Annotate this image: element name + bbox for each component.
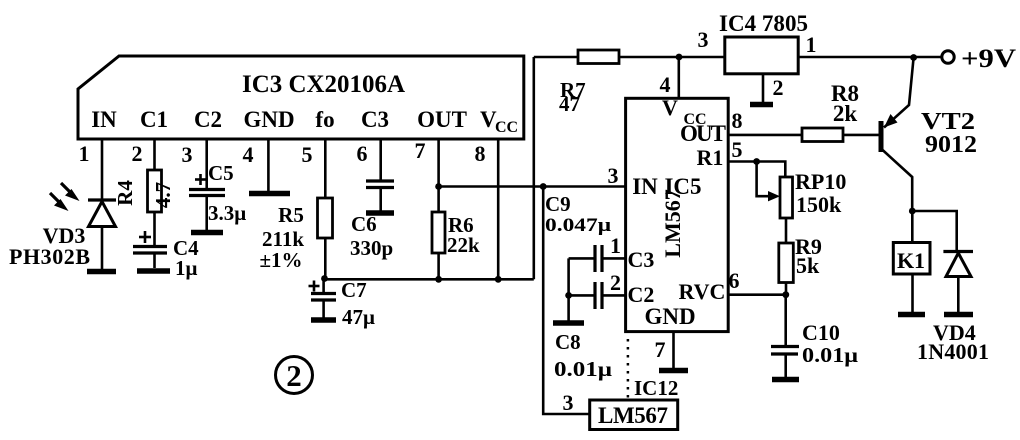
wire R6 to VCC rail [437,253,440,279]
label 330p [350,236,393,260]
label 2k [833,101,858,126]
svg-text:150k: 150k [796,192,842,217]
resistor R9 [779,243,794,283]
IC5 label R1 [697,145,724,170]
IC5 label LM567 (rotated) [660,189,685,257]
svg-text:LM567: LM567 [598,403,668,428]
capacitor on IC5 pin2 [569,282,626,309]
diode VD4 [943,252,973,313]
wire R8 to VT2 base [843,134,880,137]
svg-text:OUT: OUT [680,121,726,146]
terminal +9V circle [942,51,954,63]
svg-text:±1%: ±1% [259,248,302,272]
IC4 pin number 3 [698,27,709,52]
svg-text:OUT: OUT [417,107,467,132]
capacitor on IC5 pin1 [569,245,626,272]
ground bar C5 [191,230,223,236]
IC5 pin number 6 [729,268,740,293]
svg-text:IN: IN [632,174,658,199]
label 150k [796,192,842,217]
IC5 pin number 5 [732,137,743,162]
svg-text:8: 8 [732,108,743,133]
ground bar IC4 [750,102,773,108]
wire caps common to ground [567,258,570,320]
svg-text:9012: 9012 [925,132,977,158]
label R4 (rotated) [113,180,137,206]
label RP10 [795,169,846,194]
label C4 [173,236,199,260]
tone decoder IC5 box [626,98,729,331]
IC5 label IC5 [664,174,701,199]
svg-text:4: 4 [660,72,671,97]
wire pin7 to R6 [437,139,440,212]
IC3 pin number 4 [243,142,254,167]
svg-text:R4: R4 [113,180,137,206]
wire IC5 pin6 RVC [728,293,786,296]
IC5 pin number 3 [608,163,619,188]
svg-text:7: 7 [415,138,426,163]
IC5 label C3 [628,247,655,272]
svg-text:47μ: 47μ [342,305,375,329]
photodiode VD3 symbol [88,200,116,269]
svg-text:4.7: 4.7 [151,182,175,208]
label K1 [897,248,925,273]
svg-text:1: 1 [79,141,90,166]
label C8 [555,330,581,354]
IC3 pin label IN [91,107,117,132]
ground bar C4 [137,268,170,274]
svg-text:CC: CC [495,119,518,136]
svg-text:IC4 7805: IC4 7805 [719,11,808,36]
label VD4 [933,320,976,345]
IC3 pin label C2 [194,107,222,132]
ground bar C7 [311,317,336,323]
IC3 pin number 7 [415,138,426,163]
node dot caps join [565,292,572,299]
wire collector node to VD4 [912,211,956,251]
IC3 pin label GND [243,107,294,132]
svg-text:1N4001: 1N4001 [917,339,989,364]
IC3 title label [242,71,405,98]
label 9012 [925,132,977,158]
transistor VT2 base bar [879,121,884,152]
label plusminus 1% [259,248,302,272]
wire collector node to K1 [911,211,914,243]
capacitor C4 polarity plus [139,231,151,243]
capacitor C5 [189,190,225,231]
resistor R4 [148,170,162,212]
node dot R6 bottom [435,276,442,283]
svg-text:RVC: RVC [679,279,726,304]
ground bar IC5 pin7 [659,368,688,374]
IC5 label IN [632,174,658,199]
potentiometer RP10 [780,177,793,218]
wire pin4 GND [267,139,270,191]
wire VCC riser [532,57,535,279]
svg-text:0.047μ: 0.047μ [545,215,611,236]
node dot RVC [782,291,789,298]
svg-text:4: 4 [243,142,254,167]
IC3 pin label fo [315,107,334,132]
label 3.3u [208,201,246,225]
wire VCC bottom rail [325,278,534,281]
transistor VT2 collector [882,149,913,211]
svg-text:2: 2 [132,141,143,166]
svg-text:C3: C3 [628,247,655,272]
svg-text:6: 6 [729,268,740,293]
label 22k [447,233,480,257]
svg-text:3.3μ: 3.3μ [208,201,246,225]
dotted link line [627,339,630,398]
label 4.7 (rotated) [151,182,175,208]
IC5 label VCC [662,95,707,128]
node dot IC5 vcc tap [676,54,683,61]
svg-text:0.01μ: 0.01μ [554,357,612,381]
IC3 pin label C1 [140,107,168,132]
IC5 label C2 [628,282,655,307]
svg-text:fo: fo [315,107,334,132]
svg-text:5: 5 [732,137,743,162]
svg-text:0.01μ: 0.01μ [802,343,858,367]
svg-text:8: 8 [475,141,486,166]
IC3 pin label VCC [480,107,518,136]
photodiode light arrow 1 [61,183,80,201]
wire pin8 VCC down [497,139,500,279]
svg-text:22k: 22k [447,233,480,257]
IC5 pin number 4 [660,72,671,97]
svg-text:IN: IN [91,107,117,132]
wire R4 to C4 [153,212,156,246]
svg-text:5k: 5k [796,253,820,278]
label +9V [961,44,1016,73]
ground bar IC3 pin4 [249,191,290,197]
svg-text:K1: K1 [897,248,925,273]
svg-text:GND: GND [644,304,695,329]
label 1u [175,256,198,280]
svg-text:PH302B: PH302B [9,244,90,269]
IC3 pin label OUT [417,107,467,132]
label C7 [341,278,367,302]
transistor VT2 emitter [884,58,914,128]
svg-text:2k: 2k [833,101,858,126]
capacitor C6 [366,181,394,211]
IC5 pin number 7 [655,337,666,362]
wire IC5 pin4 [677,57,680,98]
wire top rail to R7 [534,56,578,59]
resistor R5 [318,198,333,238]
IC3 pin number 2 [132,141,143,166]
capacitor C5 polarity plus [195,174,206,185]
svg-text:RP10: RP10 [795,169,846,194]
IC5 label OUT [680,121,726,146]
svg-text:3: 3 [698,27,709,52]
wire R7 to IC4 [619,56,725,59]
svg-text:C10: C10 [802,320,840,345]
label IC4 7805 [719,11,808,36]
label R8 [831,81,859,106]
svg-text:V: V [662,95,678,120]
label R6 [448,213,474,237]
svg-text:C9: C9 [545,192,571,216]
label 5k [796,253,820,278]
label 1N4001 [917,339,989,364]
IC3 pin number 6 [357,141,368,166]
IC5 label GND [644,304,695,329]
photodiode light arrow 2 [50,193,69,211]
node dot pin7 [435,183,442,190]
label R9 [795,234,822,259]
label PH302B [9,244,90,269]
node dot pin5 wiper tap [753,158,760,165]
svg-text:GND: GND [243,107,294,132]
ground bar C6 [366,210,394,216]
svg-text:C3: C3 [361,107,389,132]
label C9 [545,192,571,216]
wire pin2 to R4 [153,139,156,170]
svg-text:1: 1 [610,233,621,258]
IC3 pin number 5 [302,142,313,167]
svg-text:C6: C6 [351,212,377,236]
svg-text:330p: 330p [350,236,393,260]
wire IC5 pin5 to RP10 [728,162,785,178]
IC3 pin number 3 [182,142,193,167]
IC12 label LM567 [598,403,668,428]
svg-text:C5: C5 [208,161,234,185]
regulator IC4 box [725,37,798,74]
label 211k [262,227,304,251]
wire IN line from pin7 node to IC5 [439,185,626,188]
IC12 pin number 3 [563,390,574,415]
ground bar VD4 [944,312,973,318]
svg-text:IC12: IC12 [634,376,678,400]
svg-text:+9V: +9V [961,44,1016,73]
svg-text:6: 6 [357,141,368,166]
wire pin3 to C5 [205,139,208,189]
label 47 [559,92,580,116]
wire pin5 to R5 [324,139,327,198]
ground bar K1 [898,312,925,318]
resistor R8 [802,128,843,142]
label R5 [278,203,304,227]
label IC12 [634,376,678,400]
svg-text:7: 7 [655,337,666,362]
svg-text:R5: R5 [278,203,304,227]
ground bar VD3 [87,269,116,275]
svg-text:1: 1 [806,32,817,57]
svg-text:47: 47 [559,92,580,116]
svg-text:C8: C8 [555,330,581,354]
node dot C9 branch [540,183,547,190]
label 0.01u C8 [554,357,612,381]
svg-text:3: 3 [563,390,574,415]
svg-text:3: 3 [608,163,619,188]
wire IC4 to +9V terminal [798,56,941,59]
IC5 label RVC [679,279,726,304]
svg-text:C7: C7 [341,278,367,302]
svg-text:5: 5 [302,142,313,167]
svg-text:C1: C1 [140,107,168,132]
capacitor C10 [771,295,799,377]
IC3 pin label C3 [361,107,389,132]
node dot VT2 emitter tap [910,54,917,61]
wire R9 to node [785,283,788,296]
figure number circled 2 [276,357,313,394]
label C6 [351,212,377,236]
ground bar C10 [772,377,799,383]
wire C9 branch down to IC12 [543,187,590,415]
wire pin1 to VD3 [101,139,104,199]
node dot pin8 VCC rail [495,276,502,283]
label VD3 [43,223,86,248]
resistor R6 [432,212,445,253]
wire R5 to node [324,238,327,279]
IC5 pin number 2 [610,270,621,295]
svg-text:2: 2 [286,358,302,393]
wire IC5 pin7 [672,332,675,368]
RP10 wiper arm [757,162,780,202]
capacitor C7 polarity plus [309,281,320,292]
resistor R7 [578,50,619,64]
ground bar caps [553,320,584,326]
relay K1 box [893,243,930,275]
label R7 [560,78,586,102]
svg-text:2: 2 [773,75,784,100]
node dot R5/C7 [321,275,328,282]
svg-text:LM567: LM567 [660,189,685,257]
capacitor C7 [311,279,336,319]
svg-text:C2: C2 [194,107,222,132]
wire K1 to ground [911,274,914,312]
IC3 CX20106A box [78,56,524,139]
wire RP10 to R9 [785,218,788,243]
IC5 pin number 1 [610,233,621,258]
wire IC4 pin2 [762,74,765,102]
svg-text:3: 3 [182,142,193,167]
node dot collector [909,208,916,215]
svg-text:R1: R1 [697,145,724,170]
label VT2 [921,109,975,135]
label C10 [802,320,840,345]
svg-text:IC3 CX20106A: IC3 CX20106A [242,71,405,98]
IC3 pin number 1 [79,141,90,166]
label 0.047u [545,215,611,236]
IC4 pin number 2 [773,75,784,100]
IC12 LM567 box [590,400,678,430]
IC4 pin number 1 [806,32,817,57]
wire IC5 pin8 to R8 [728,134,802,137]
svg-text:1μ: 1μ [175,256,198,280]
IC3 pin number 8 [475,141,486,166]
svg-text:2: 2 [610,270,621,295]
wire pin6 to C6 [379,139,382,181]
IC5 pin number 8 [732,108,743,133]
label C5 [208,161,234,185]
label 0.01u C10 [802,343,858,367]
label 47u [342,305,375,329]
capacitor C4 [133,247,167,269]
